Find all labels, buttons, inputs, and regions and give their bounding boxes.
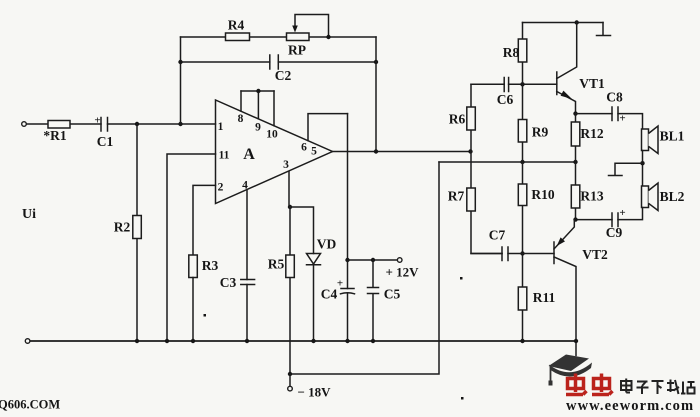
svg-text:5: 5: [311, 146, 317, 158]
svg-text:R12: R12: [580, 126, 603, 141]
wire C3 to bus: [246, 285, 248, 342]
+12V terminal: [397, 258, 402, 263]
pin 4 wire: [246, 190, 248, 280]
svg-text:9: 9: [255, 122, 261, 134]
svg-text:C9: C9: [606, 225, 623, 240]
wire R8 column: [522, 23, 524, 342]
resistor R1: [48, 121, 70, 129]
wire C7 line: [471, 253, 554, 255]
-18V terminal: [289, 374, 291, 386]
svg-text:+: +: [94, 115, 100, 127]
node mid rail R9 junction: [520, 160, 524, 164]
svg-text:10: 10: [266, 129, 278, 141]
wire C9 line: [576, 208, 643, 220]
capacitor C9: [612, 213, 618, 227]
svg-text:R11: R11: [533, 290, 556, 305]
pin 10 wire: [273, 91, 275, 126]
resistor R9: [518, 120, 527, 143]
svg-text:11: 11: [219, 150, 230, 162]
svg-text:*R1: *R1: [43, 128, 66, 143]
wire -18V rail: [290, 162, 439, 374]
wire R3 to bus: [192, 278, 194, 342]
node pin11 bus junction: [165, 339, 169, 343]
node feedback junction: [178, 122, 182, 126]
svg-text:R8: R8: [503, 45, 520, 60]
svg-text:C1: C1: [97, 134, 114, 149]
svg-text:BL2: BL2: [660, 189, 685, 204]
resistor R12: [571, 122, 580, 146]
wire C8 line: [576, 114, 643, 129]
node R11 bus junction: [520, 339, 524, 343]
pin 6 wire bracket to mid column: [308, 114, 348, 141]
svg-text:1: 1: [218, 121, 224, 133]
wire mid column (pin6 bracket to C4 and bus): [347, 114, 349, 341]
wire R12 R13 column: [575, 114, 577, 220]
svg-text:R3: R3: [202, 258, 219, 273]
svg-text:C2: C2: [275, 68, 292, 83]
svg-text:C4: C4: [321, 287, 338, 302]
pin 8 wire: [240, 91, 242, 111]
capacitor C3: [241, 280, 255, 285]
node C2 right junction: [374, 60, 378, 64]
wire +12V line: [348, 259, 398, 261]
bottom bus left terminal: [25, 339, 30, 344]
wire RP wiper bracket: [295, 15, 329, 38]
wire speaker mid: [642, 151, 644, 187]
capacitor C7: [502, 247, 508, 261]
node speaker mid junction: [640, 161, 644, 165]
resistor R5: [289, 207, 291, 374]
svg-text:A: A: [243, 146, 255, 163]
svg-text:R7: R7: [448, 189, 465, 204]
svg-text:C8: C8: [606, 90, 623, 105]
noise speck 3: [461, 397, 464, 400]
svg-text:Q606.COM: Q606.COM: [0, 398, 60, 412]
resistor R4: [226, 33, 250, 41]
node C5 top junction: [371, 258, 375, 262]
svg-text:R13: R13: [580, 189, 603, 204]
svg-text:www.eeworm.com: www.eeworm.com: [566, 398, 694, 412]
wire C6 line: [471, 83, 557, 85]
speaker BL2: [642, 186, 649, 208]
resistor R7: [467, 188, 476, 211]
pin 2 wire: [193, 185, 216, 255]
node R2 bus junction: [135, 339, 139, 343]
node +12V C4 junction: [345, 258, 349, 262]
svg-text:R5: R5: [268, 257, 285, 272]
ground speaker mid: [609, 163, 643, 175]
node R3 bus junction: [191, 339, 195, 343]
node input junction R2: [135, 122, 139, 126]
node output feedback junction: [374, 149, 378, 153]
wire top feedback line: [181, 36, 377, 38]
node pin9 junction: [256, 89, 260, 93]
resistor R10: [518, 184, 527, 206]
svg-text:RP: RP: [288, 43, 306, 58]
pin 3 wire: [288, 172, 290, 208]
transistor VT1: [556, 72, 558, 95]
wire feedback left vertical: [180, 37, 182, 124]
resistor R3: [189, 255, 198, 278]
svg-text:6: 6: [301, 141, 307, 153]
wire top right rail: [523, 22, 604, 24]
node C9 R13 junction: [573, 217, 577, 221]
svg-text:8: 8: [238, 113, 244, 125]
potentiometer RP: [287, 33, 310, 41]
svg-text:VT2: VT2: [582, 247, 608, 262]
resistor R8: [518, 39, 527, 62]
node C5 bus junction: [371, 339, 375, 343]
svg-text:R2: R2: [114, 220, 131, 235]
node mid rail R12 junction: [573, 160, 577, 164]
svg-text:+: +: [619, 113, 625, 125]
svg-text:C5: C5: [384, 287, 401, 302]
wire mid rail y162: [439, 161, 576, 163]
svg-text:VD: VD: [317, 237, 337, 252]
wire input line: [27, 123, 216, 125]
node VT1 emitter junction: [573, 111, 577, 115]
watermark chongchong char1: [566, 374, 587, 395]
wire C2 line: [181, 61, 377, 63]
node RP wiper junction: [326, 35, 330, 39]
svg-text:R6: R6: [449, 112, 466, 127]
resistor R2: [133, 216, 142, 239]
svg-text:3: 3: [283, 159, 289, 171]
node C3 bus junction: [245, 339, 249, 343]
svg-text:+: +: [619, 207, 625, 219]
capacitor C1: [101, 118, 108, 132]
svg-text:C3: C3: [220, 275, 237, 290]
svg-text:C7: C7: [489, 228, 506, 243]
capacitor C5: [368, 260, 379, 341]
capacitor C8: [612, 107, 618, 121]
wire R6 R7 column: [471, 84, 502, 253]
RP wiper arrowhead: [292, 26, 298, 33]
svg-text:+: +: [337, 278, 343, 290]
node -18V corner junction: [288, 372, 292, 376]
node C4 bus junction: [345, 339, 349, 343]
diode VD: [307, 254, 321, 265]
wire op-amp output: [333, 151, 471, 153]
svg-text:BL1: BL1: [660, 129, 685, 144]
resistor R11: [518, 287, 527, 310]
node VD bus junction: [311, 339, 315, 343]
node pin3 branch junction: [288, 205, 292, 209]
pin 9 wire: [257, 91, 259, 119]
watermark dianzi text glyphs: [621, 379, 695, 395]
watermark cap logo: [549, 355, 593, 386]
node VT1 collector top junction: [575, 20, 579, 24]
input terminal Ui: [22, 122, 27, 127]
svg-text:4: 4: [242, 180, 248, 192]
resistor R6: [467, 107, 476, 130]
node output R6 junction: [468, 149, 472, 153]
node C7 base junction: [520, 251, 524, 255]
speaker BL1: [642, 129, 649, 151]
svg-text:C6: C6: [497, 92, 514, 107]
wire pins 8-10 bracket: [241, 90, 274, 92]
capacitor C4: [341, 288, 354, 290]
svg-text:VT1: VT1: [579, 76, 605, 91]
transistor VT2: [553, 242, 555, 264]
wire pin3 branch: [290, 207, 314, 254]
svg-text:+ 12V: + 12V: [385, 265, 419, 280]
noise speck 1: [204, 314, 207, 317]
wire bottom bus: [30, 340, 576, 342]
noise speck 2: [460, 277, 463, 280]
svg-text:R9: R9: [532, 125, 549, 140]
svg-text:− 18V: − 18V: [297, 385, 331, 400]
resistor R13: [571, 185, 580, 208]
wire feedback right vertical: [375, 37, 377, 152]
svg-text:R10: R10: [531, 187, 554, 202]
node C6 R8 junction: [520, 82, 524, 86]
ground top right: [597, 23, 611, 36]
capacitor C2: [270, 55, 279, 69]
wire R2 column: [136, 124, 138, 341]
watermark chongchong char2: [592, 374, 613, 395]
svg-text:Ui: Ui: [22, 207, 36, 222]
capacitor C6: [504, 78, 508, 92]
svg-text:2: 2: [218, 182, 224, 194]
svg-text:R4: R4: [228, 18, 245, 33]
op-amp U A triangle: [216, 100, 333, 204]
node C2 left junction: [178, 60, 182, 64]
pin 11 wire: [167, 154, 216, 341]
